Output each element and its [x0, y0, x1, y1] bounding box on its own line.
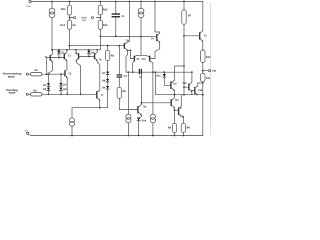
svg-text:C3: C3 — [124, 75, 128, 78]
capacitor C1 — [115, 1, 117, 3]
diode D5 — [60, 86, 62, 88]
node offset null right — [100, 17, 102, 19]
wire D11 to T12 base — [164, 77, 170, 85]
resistor R11 — [201, 73, 205, 82]
svg-text:D8: D8 — [102, 79, 106, 82]
svg-text:T10: T10 — [141, 58, 146, 61]
svg-text:T5: T5 — [68, 73, 72, 76]
svg-text:T4: T4 — [99, 59, 103, 62]
transistor T6 — [199, 33, 201, 39]
transistor T13 — [170, 100, 172, 106]
transistor T4 — [94, 54, 96, 59]
svg-text:T9: T9 — [136, 58, 140, 61]
svg-text:D5: D5 — [63, 88, 67, 91]
resistor R15 — [98, 20, 102, 29]
wire non-inverting line — [42, 73, 65, 75]
node T8 emitter tee — [130, 49, 132, 51]
svg-text:R14: R14 — [60, 24, 65, 27]
wire T8 emitter to T10 base — [128, 50, 134, 58]
svg-text:C2: C2 — [139, 76, 143, 79]
diode D11 — [163, 71, 165, 73]
svg-text:R10: R10 — [206, 56, 211, 59]
current source I1 — [51, 1, 53, 3]
svg-text:R6: R6 — [123, 90, 127, 93]
+Vs supply terminal — [29, 0, 31, 2]
transistor T9 (driver) — [154, 1, 156, 3]
resistor R2 — [31, 93, 43, 96]
transistor T15 — [188, 84, 190, 90]
svg-text:+Vs: +Vs — [26, 5, 30, 8]
transistor T11 — [137, 107, 139, 113]
wire top rail +Vs — [31, 2, 203, 31]
wire T1 base — [47, 58, 64, 75]
diode D3 — [58, 49, 60, 52]
svg-text:T16: T16 — [198, 89, 203, 92]
svg-text:R11: R11 — [206, 77, 211, 80]
resistor R6 — [117, 87, 121, 98]
frame edge (faint) — [210, 2, 212, 135]
svg-text:R9: R9 — [187, 127, 191, 130]
svg-text:D4: D4 — [63, 83, 67, 86]
node T12 emitter / T13 collector — [174, 94, 176, 96]
transistor T2 — [78, 54, 80, 59]
diode D1 — [48, 73, 50, 75]
svg-text:R7: R7 — [188, 14, 192, 17]
transistor T12 — [170, 82, 172, 88]
svg-text:input: input — [8, 74, 15, 78]
wire T8 emitter to second stage — [126, 50, 139, 72]
diode D4 — [60, 73, 62, 75]
svg-text:D1: D1 — [43, 84, 47, 87]
svg-text:input: input — [9, 91, 16, 95]
current source I3 — [70, 118, 75, 123]
transistor T16 — [194, 88, 196, 94]
transistor T1 — [49, 55, 51, 60]
svg-text:R24: R24 — [61, 8, 66, 11]
wire T15 collector up — [191, 71, 193, 73]
svg-text:R15: R15 — [103, 24, 108, 27]
wire T13 emitter to T14 base — [174, 109, 176, 111]
resistor R9 — [181, 123, 185, 132]
svg-text:R25: R25 — [103, 8, 108, 11]
node chain-right / C1 — [100, 35, 102, 37]
wire emitter bus to current source I3 — [72, 108, 108, 118]
wire bottom rail -Vs — [31, 95, 203, 136]
diode D10 — [137, 118, 140, 121]
wire first stage to T9 base — [100, 35, 156, 37]
transistor T3 — [63, 54, 65, 59]
node offset null left — [69, 17, 71, 19]
svg-text:R1: R1 — [35, 69, 39, 72]
svg-text:D9: D9 — [102, 87, 106, 90]
node chain-left to T8 base — [69, 45, 71, 47]
node T5 emitter on inverting line — [66, 93, 68, 95]
transistor T5 — [64, 71, 66, 76]
diode D8 — [106, 79, 109, 82]
diode D7 — [106, 72, 109, 75]
resistor R24 — [69, 1, 71, 3]
current source I4 — [127, 71, 129, 73]
capacitor C3 — [118, 45, 120, 47]
wire second stage output bus — [142, 71, 166, 73]
transistor T9 — [133, 56, 135, 61]
transistor T10 — [149, 56, 151, 61]
resistor R25 — [100, 1, 102, 3]
resistor R1 — [31, 73, 43, 76]
svg-text:T11: T11 — [142, 106, 147, 109]
transistor T14 — [178, 108, 180, 115]
svg-text:R5: R5 — [111, 54, 115, 57]
output terminal — [202, 70, 204, 72]
svg-text:R2: R2 — [33, 89, 37, 92]
svg-text:D7: D7 — [102, 72, 106, 75]
diode D9 — [106, 86, 109, 89]
diode D2 — [48, 86, 50, 87]
svg-text:T15: T15 — [182, 82, 187, 85]
wire T9/T10 emitter bus — [137, 54, 145, 56]
svg-text:N2: N2 — [73, 24, 77, 27]
svg-text:R8: R8 — [168, 127, 172, 130]
svg-text:T14: T14 — [180, 115, 185, 118]
transistor T8 — [129, 1, 131, 3]
resistor R7 — [183, 1, 185, 3]
wire output-stage emitter bus — [155, 72, 202, 95]
wire R6 to T11 base — [119, 99, 137, 110]
wire to T8 base — [70, 45, 125, 47]
diode D6 — [88, 49, 90, 52]
svg-text:T9: T9 — [151, 38, 155, 41]
wire inverting line — [42, 93, 97, 95]
resistor R5 — [107, 46, 109, 51]
svg-text:T8: T8 — [126, 40, 130, 43]
wire collector bus first stage — [52, 36, 100, 50]
svg-text:T3: T3 — [68, 54, 72, 57]
resistor R10 — [201, 50, 205, 63]
resistor R8 — [174, 118, 176, 123]
capacitor C2 — [139, 69, 140, 74]
svg-text:T6: T6 — [204, 35, 208, 38]
current source I5 — [152, 72, 154, 114]
svg-text:T12: T12 — [172, 83, 177, 86]
wire T15 emitter to T16 base — [192, 89, 195, 91]
svg-text:C1: C1 — [121, 15, 125, 18]
node T2 emitter on inverting line — [80, 93, 82, 95]
resistor R14 — [67, 20, 71, 29]
current source I2 — [140, 1, 142, 3]
wire R7 bus to T15 base — [183, 86, 185, 88]
node T1 collector — [51, 49, 53, 51]
svg-text:-Vs: -Vs — [24, 130, 28, 133]
transistor T7 — [96, 92, 98, 98]
wire T11 collector to T13 base — [142, 102, 171, 104]
svg-text:T13: T13 — [174, 99, 179, 102]
wire R7 to T6 base — [183, 35, 185, 37]
wire T2/T4 base — [79, 56, 94, 58]
svg-text:T7: T7 — [101, 94, 105, 97]
-Vs supply terminal — [27, 132, 29, 134]
node riser to T12 emitter — [155, 71, 157, 73]
svg-text:D11: D11 — [156, 74, 161, 77]
svg-text:Out: Out — [212, 69, 216, 72]
svg-text:D2: D2 — [43, 88, 47, 91]
svg-text:Null: Null — [82, 19, 86, 22]
svg-text:D10: D10 — [142, 120, 147, 123]
